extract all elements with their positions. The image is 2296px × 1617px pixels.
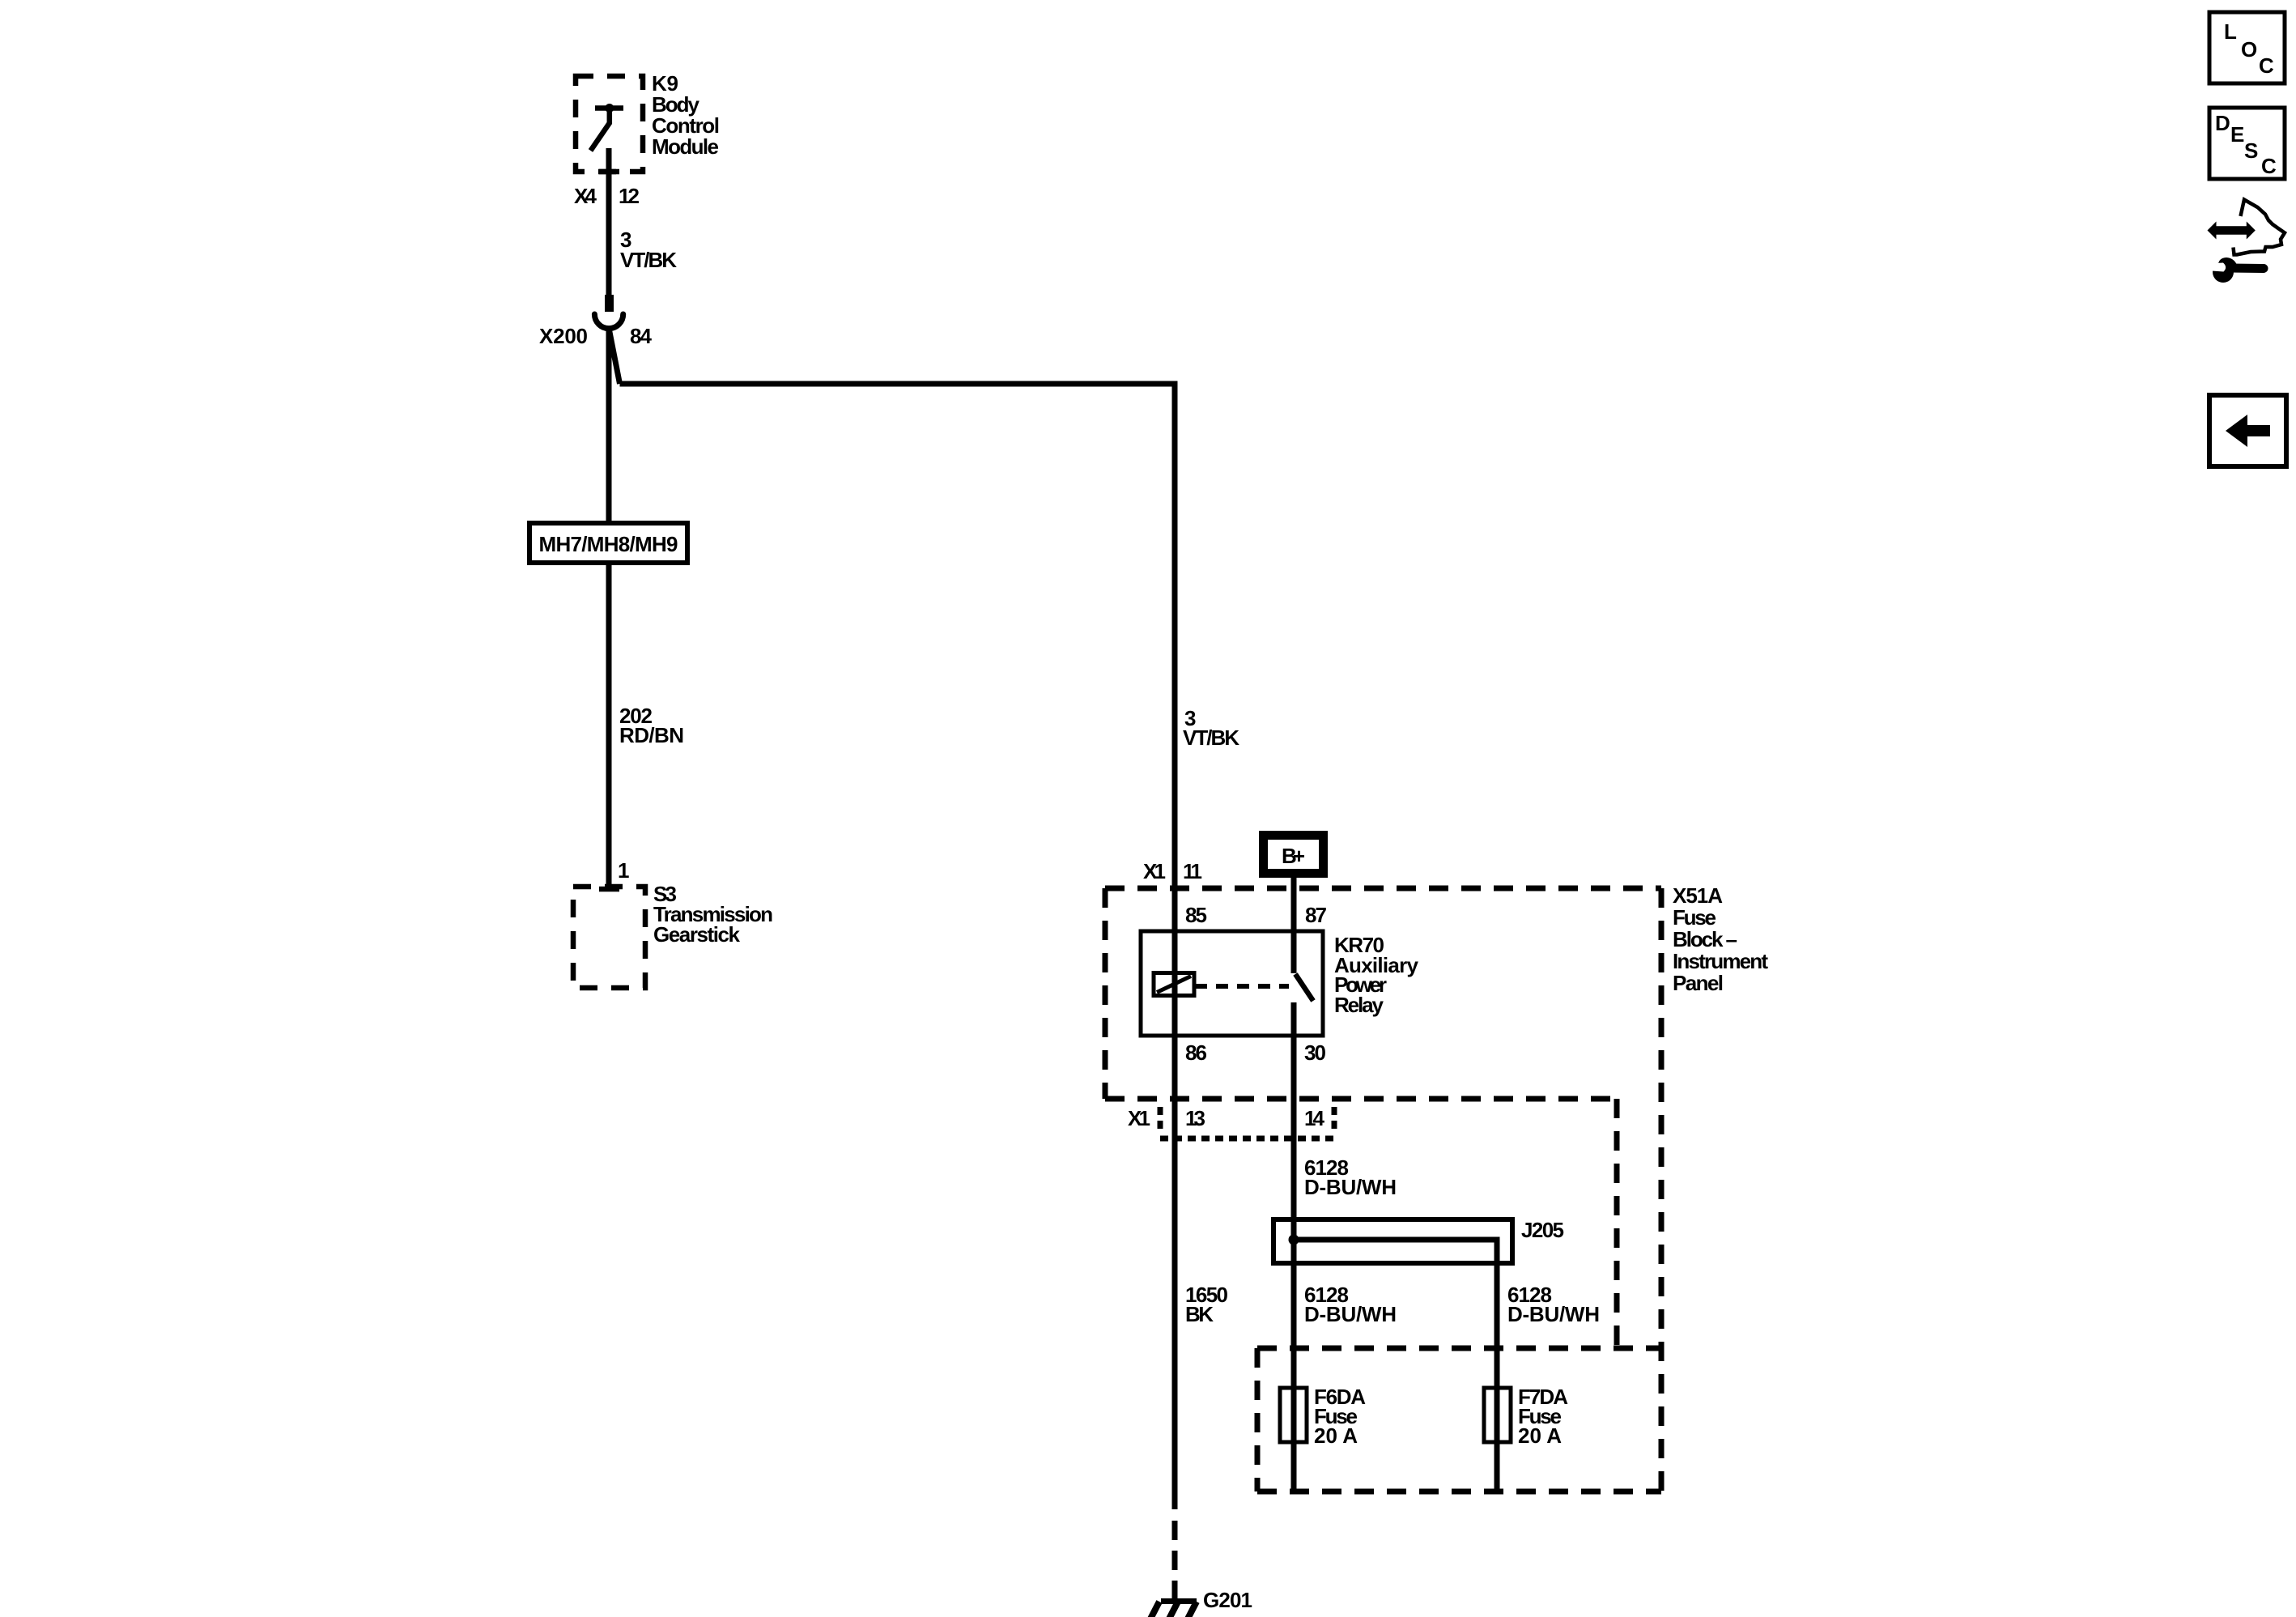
svg-text:VT/BK: VT/BK	[620, 248, 677, 272]
svg-text:C: C	[2261, 154, 2277, 178]
svg-text:13: 13	[1185, 1106, 1205, 1130]
svg-text:J205: J205	[1521, 1218, 1564, 1242]
label F7DA Fuse 20 A	[1518, 1385, 1568, 1448]
svg-text:87: 87	[1305, 903, 1327, 927]
svg-text:L: L	[2224, 19, 2237, 44]
splice J205 box	[1273, 1219, 1512, 1263]
svg-text:D: D	[2215, 111, 2230, 135]
relay compartment bottom dashed edge	[1105, 1096, 1617, 1102]
module K9 dashed box	[576, 76, 643, 172]
connector X1 dotted box right edge	[1332, 1107, 1337, 1134]
fuse F6DA	[1280, 1388, 1307, 1442]
wire label 6128 D-BU/WH left	[1304, 1283, 1397, 1326]
label S3 Transmission Gearstick	[653, 882, 773, 947]
relay coil	[1154, 973, 1194, 996]
icon LOC box	[2209, 12, 2285, 83]
wire label 202 RD/BN	[619, 704, 684, 747]
svg-text:X1: X1	[1128, 1106, 1150, 1130]
svg-text:S: S	[2244, 138, 2258, 163]
ground G201 symbol	[1146, 1602, 1197, 1617]
label X51A Fuse Block Instrument Panel	[1673, 883, 1768, 995]
wire label 3 VT/BK	[620, 228, 677, 272]
fuse box dashed left edge	[1255, 1348, 1261, 1491]
component S3 dashed box	[573, 887, 645, 988]
svg-text:Panel: Panel	[1673, 971, 1724, 995]
pin tick at S3 box top	[599, 887, 619, 892]
icon DESC box	[2209, 108, 2285, 179]
svg-text:D-BU/WH: D-BU/WH	[1507, 1302, 1600, 1326]
svg-text:20 A: 20 A	[1518, 1423, 1562, 1448]
svg-text:RD/BN: RD/BN	[619, 723, 684, 747]
wire MH7 box to S3	[606, 563, 612, 889]
wire label 6128 D-BU/WH right	[1507, 1283, 1600, 1326]
svg-text:Fuse: Fuse	[1673, 905, 1716, 930]
svg-text:D-BU/WH: D-BU/WH	[1304, 1302, 1397, 1326]
svg-text:B+: B+	[1282, 844, 1305, 868]
label F6DA Fuse 20 A	[1314, 1385, 1366, 1448]
svg-text:G201: G201	[1203, 1588, 1252, 1612]
connector X200 male pin	[605, 295, 614, 312]
svg-text:12: 12	[619, 184, 640, 208]
svg-text:Module: Module	[652, 134, 719, 159]
connector X1 dotted box bottom edge	[1160, 1136, 1336, 1142]
svg-text:Relay: Relay	[1334, 993, 1384, 1017]
svg-text:Instrument: Instrument	[1673, 949, 1768, 973]
svg-text:VT/BK: VT/BK	[1183, 726, 1239, 750]
svg-text:85: 85	[1185, 903, 1207, 927]
switch inside K9	[591, 104, 624, 151]
relay switch blade	[1295, 974, 1313, 1001]
connector X200 female cup	[594, 314, 623, 329]
svg-text:84: 84	[630, 324, 653, 348]
relay mechanical link dashed	[1195, 984, 1289, 989]
svg-text:X200: X200	[539, 324, 588, 348]
wire relay pin 30 down through J205 to fuse F6DA	[1291, 1002, 1297, 1491]
fuse box dashed bottom edge	[1257, 1489, 1661, 1495]
svg-text:X51A: X51A	[1673, 883, 1723, 908]
wire branch diagonal to horizontal run	[609, 328, 620, 384]
svg-text:D-BU/WH: D-BU/WH	[1304, 1175, 1397, 1199]
splice J205 junction dot	[1289, 1235, 1299, 1245]
wire horizontal branch to right then down to relay	[620, 384, 1176, 1509]
svg-text:30: 30	[1304, 1040, 1326, 1065]
icon double arrow	[2208, 222, 2256, 240]
connector X1 dotted box left edge	[1158, 1107, 1163, 1134]
svg-text:20 A: 20 A	[1314, 1423, 1358, 1448]
fuse block X51A dashed box left edge	[1103, 888, 1108, 1099]
relay KR70 box	[1141, 931, 1323, 1036]
svg-text:Gearstick: Gearstick	[653, 922, 741, 947]
wire K9 pin 12 to connector X200	[606, 148, 612, 295]
label K9 Body Control Module	[652, 71, 720, 159]
svg-text:11: 11	[1183, 859, 1202, 883]
label KR70 Auxiliary Power Relay	[1334, 933, 1419, 1017]
pin tick at K9 box bottom	[599, 169, 619, 175]
svg-text:C: C	[2259, 53, 2274, 78]
wire B+ to relay pin 87	[1291, 878, 1297, 973]
wire label 1650 BK	[1185, 1283, 1228, 1326]
svg-text:14: 14	[1304, 1106, 1325, 1130]
wire label 6128 D-BU/WH	[1304, 1155, 1397, 1199]
harness option box MH7/MH8/MH9	[529, 523, 687, 563]
svg-text:1: 1	[618, 858, 629, 883]
fuse F7DA	[1484, 1388, 1511, 1442]
svg-text:O: O	[2241, 37, 2257, 62]
wire X200 down to MH7 box	[606, 328, 612, 523]
fuse block X51A dashed box right edge	[1659, 888, 1665, 1496]
svg-text:MH7/MH8/MH9: MH7/MH8/MH9	[539, 532, 678, 556]
fuse box dashed top edge	[1257, 1346, 1661, 1351]
svg-text:86: 86	[1185, 1040, 1207, 1065]
wire label 3 VT/BK right branch	[1183, 706, 1239, 750]
svg-text:BK: BK	[1185, 1302, 1214, 1326]
svg-text:E: E	[2230, 122, 2244, 147]
svg-text:Block –: Block –	[1673, 927, 1737, 951]
splice compartment right dashed edge	[1614, 1099, 1620, 1348]
svg-text:X1: X1	[1143, 859, 1166, 883]
splice J205 bar and wire down to fuse F7DA	[1294, 1240, 1497, 1491]
fuse block X51A dashed box top edge	[1105, 886, 1661, 891]
icon wrench	[2207, 257, 2264, 283]
dashed wire to ground	[1172, 1521, 1178, 1598]
battery feed B+ box	[1259, 831, 1328, 878]
svg-text:X4: X4	[574, 184, 597, 208]
icon car outline	[2234, 200, 2285, 255]
icon back arrow box	[2209, 395, 2286, 466]
